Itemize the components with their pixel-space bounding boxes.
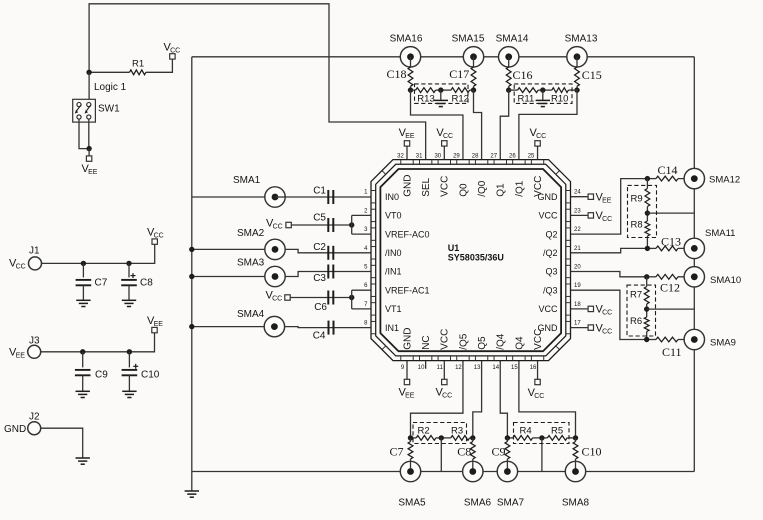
svg-text:R2: R2 [418, 426, 430, 437]
svg-text:C14: C14 [658, 163, 678, 177]
svg-text:25: 25 [528, 153, 535, 159]
svg-text:EE: EE [602, 197, 612, 204]
svg-text:R10: R10 [551, 94, 568, 105]
svg-text:C3: C3 [313, 273, 326, 284]
svg-text:SMA1: SMA1 [233, 175, 261, 186]
svg-text:28: 28 [472, 153, 479, 159]
svg-text:/Q1: /Q1 [514, 180, 525, 197]
svg-text:11: 11 [437, 365, 444, 371]
svg-text:/Q2: /Q2 [543, 248, 558, 258]
svg-text:SMA2: SMA2 [237, 228, 265, 239]
svg-text:C1: C1 [313, 186, 326, 197]
svg-text:CC: CC [602, 309, 612, 316]
svg-text:R12: R12 [452, 94, 469, 105]
svg-text:31: 31 [416, 153, 423, 159]
svg-text:C18: C18 [386, 67, 406, 81]
svg-text:EE: EE [405, 133, 415, 140]
svg-text:R5: R5 [551, 426, 563, 437]
svg-text:CC: CC [442, 392, 452, 399]
svg-text:VREF-AC1: VREF-AC1 [385, 285, 430, 295]
svg-text:R11: R11 [518, 94, 535, 105]
svg-text:SMA7: SMA7 [497, 498, 525, 509]
svg-text:/Q5: /Q5 [458, 333, 469, 350]
svg-text:GND: GND [402, 328, 413, 350]
svg-text:SMA12: SMA12 [709, 175, 740, 186]
svg-text:R1: R1 [132, 59, 144, 70]
svg-text:SMA11: SMA11 [705, 228, 735, 239]
svg-text:C10: C10 [141, 370, 160, 381]
svg-text:R9: R9 [631, 194, 643, 205]
svg-text:SMA6: SMA6 [464, 498, 492, 509]
svg-text:VCC: VCC [440, 329, 451, 350]
svg-text:VT1: VT1 [385, 304, 402, 314]
svg-text:J3: J3 [29, 336, 40, 347]
svg-text:23: 23 [574, 208, 581, 214]
svg-text:22: 22 [574, 227, 581, 233]
svg-text:EE: EE [16, 352, 26, 359]
svg-text:IN0: IN0 [385, 192, 399, 202]
svg-text:16: 16 [530, 365, 537, 371]
svg-text:13: 13 [474, 365, 481, 371]
svg-text:R6: R6 [630, 316, 642, 327]
svg-text:SMA8: SMA8 [562, 498, 590, 509]
svg-text:26: 26 [509, 153, 516, 159]
svg-text:C13: C13 [661, 235, 681, 249]
svg-text:NC: NC [421, 335, 432, 349]
svg-text:19: 19 [574, 283, 581, 289]
svg-text:C4: C4 [313, 331, 326, 342]
svg-text:17: 17 [574, 321, 581, 327]
svg-text:R7: R7 [630, 290, 642, 301]
svg-text:32: 32 [397, 153, 404, 159]
svg-text:C11: C11 [662, 345, 682, 359]
svg-text:C8: C8 [140, 278, 153, 289]
svg-text:C5: C5 [313, 213, 326, 224]
svg-text:/Q3: /Q3 [543, 285, 558, 295]
svg-text:10: 10 [418, 365, 425, 371]
svg-text:CC: CC [16, 263, 26, 270]
svg-text:CC: CC [602, 328, 612, 335]
svg-text:/IN1: /IN1 [385, 267, 402, 277]
svg-text:CC: CC [272, 295, 282, 302]
svg-text:VCC: VCC [538, 211, 558, 221]
svg-text:Q2: Q2 [545, 229, 557, 239]
svg-text:VCC: VCC [533, 176, 544, 197]
svg-text:SY58035/36U: SY58035/36U [448, 253, 504, 263]
svg-text:SMA4: SMA4 [237, 309, 265, 320]
svg-text:SMA15: SMA15 [452, 34, 485, 45]
svg-text:Q1: Q1 [496, 183, 507, 197]
svg-text:SMA9: SMA9 [710, 338, 736, 349]
svg-text:GND: GND [4, 424, 26, 435]
svg-text:SMA14: SMA14 [496, 34, 529, 45]
svg-text:C12: C12 [660, 281, 680, 295]
svg-text:C17: C17 [449, 67, 469, 81]
svg-text:21: 21 [574, 246, 581, 252]
svg-text:30: 30 [434, 153, 441, 159]
svg-text:IN1: IN1 [385, 323, 399, 333]
svg-text:C7: C7 [95, 278, 108, 289]
svg-text:C9: C9 [95, 370, 108, 381]
svg-text:CC: CC [536, 133, 546, 140]
svg-text:VT0: VT0 [385, 211, 402, 221]
svg-text:C6: C6 [314, 302, 327, 313]
svg-text:/Q4: /Q4 [496, 333, 507, 350]
svg-text:CC: CC [170, 47, 180, 54]
svg-text:EE: EE [88, 169, 98, 176]
svg-text:SMA13: SMA13 [565, 34, 598, 45]
svg-text:C16: C16 [513, 68, 533, 82]
svg-text:R4: R4 [520, 426, 532, 437]
svg-text:EE: EE [405, 392, 415, 399]
svg-text:C9: C9 [491, 445, 505, 459]
svg-text:CC: CC [443, 133, 453, 140]
svg-text:U1: U1 [448, 243, 460, 253]
svg-text:SEL: SEL [421, 177, 432, 196]
svg-text:SW1: SW1 [98, 104, 120, 115]
svg-text:C8: C8 [457, 445, 471, 459]
svg-text:Q4: Q4 [514, 336, 525, 350]
svg-text:CC: CC [273, 223, 283, 230]
svg-text:CC: CC [602, 216, 612, 223]
svg-text:SMA10: SMA10 [710, 275, 741, 286]
svg-text:VREF-AC0: VREF-AC0 [385, 229, 430, 239]
svg-text:CC: CC [534, 393, 544, 400]
svg-text:/IN0: /IN0 [385, 248, 402, 258]
svg-text:Logic 1: Logic 1 [94, 82, 127, 93]
svg-text:GND: GND [402, 175, 413, 197]
svg-text:18: 18 [574, 302, 581, 308]
svg-text:R3: R3 [451, 426, 463, 437]
svg-text:20: 20 [574, 265, 581, 271]
svg-text:C15: C15 [582, 68, 602, 82]
svg-text:R13: R13 [417, 94, 434, 105]
svg-text:VCC: VCC [538, 304, 558, 314]
svg-text:R8: R8 [631, 220, 643, 231]
svg-text:12: 12 [455, 365, 462, 371]
svg-text:29: 29 [453, 153, 460, 159]
svg-text:14: 14 [492, 365, 499, 371]
svg-text:27: 27 [490, 153, 497, 159]
svg-text:SMA16: SMA16 [390, 34, 423, 45]
svg-text:Q3: Q3 [545, 267, 557, 277]
svg-text:C2: C2 [313, 242, 326, 253]
svg-text:SMA5: SMA5 [398, 498, 426, 509]
svg-text:C10: C10 [582, 445, 602, 459]
svg-text:SMA3: SMA3 [237, 258, 265, 269]
svg-text:C7: C7 [389, 445, 403, 459]
svg-text:Q0: Q0 [458, 183, 469, 197]
svg-text:J1: J1 [29, 246, 40, 257]
svg-text:CC: CC [154, 232, 164, 239]
svg-text:15: 15 [511, 365, 518, 371]
svg-text:EE: EE [154, 321, 164, 328]
svg-text:J2: J2 [29, 412, 40, 423]
svg-text:Q5: Q5 [477, 336, 488, 350]
svg-text:24: 24 [574, 190, 581, 196]
svg-text:VCC: VCC [533, 329, 544, 350]
svg-text:/Q0: /Q0 [477, 180, 488, 197]
svg-text:VCC: VCC [440, 176, 451, 197]
